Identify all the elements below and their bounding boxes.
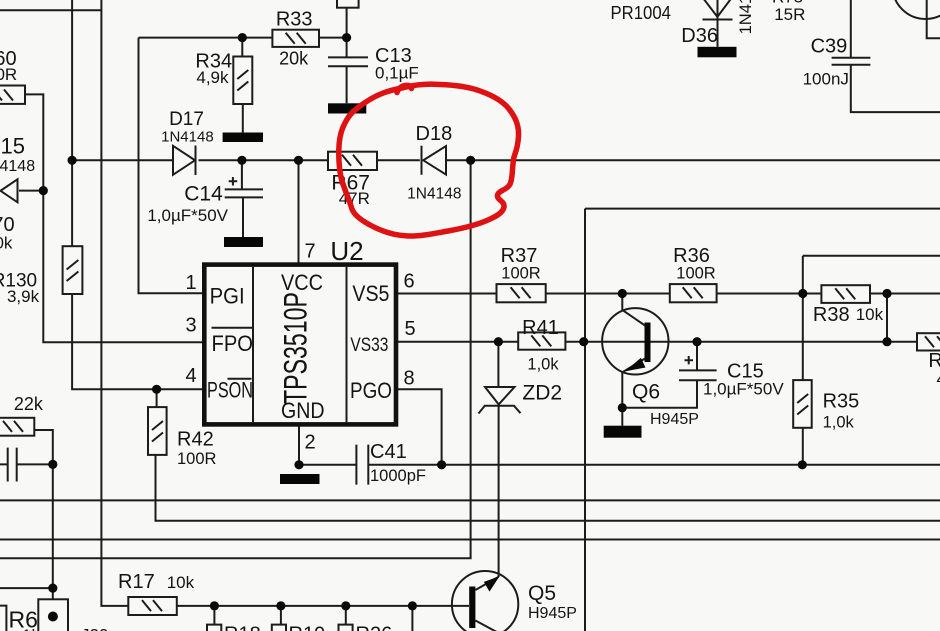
svg-text:C14: C14 — [184, 183, 223, 206]
svg-text:4: 4 — [937, 370, 940, 389]
svg-text:0,1µF: 0,1µF — [375, 64, 419, 83]
svg-text:10k: 10k — [0, 234, 13, 253]
node dot ZD2 top — [494, 337, 503, 346]
node dot 22k cap — [48, 460, 57, 469]
ground bar Q6 — [604, 426, 642, 438]
node dot R41 right — [579, 337, 588, 346]
resistor stub box b2 — [272, 625, 286, 631]
resistor 22k partial — [0, 418, 34, 436]
node dot base row right — [882, 337, 891, 346]
capacitor bottom-left partial — [8, 448, 17, 482]
svg-text:1N4148: 1N4148 — [161, 128, 214, 145]
node dot Q6 collector — [618, 289, 627, 298]
capacitor C15 polarized — [679, 356, 717, 380]
wire vertical net x72 — [72, 0, 204, 389]
svg-text:1,0µF*50V: 1,0µF*50V — [703, 380, 784, 399]
svg-text:8: 8 — [403, 368, 414, 390]
svg-text:100R: 100R — [501, 265, 541, 283]
node dot R17 row a — [210, 601, 219, 610]
svg-text:R17: R17 — [118, 571, 155, 593]
svg-text:3: 3 — [185, 315, 196, 337]
transistor partial top-right — [893, 0, 940, 19]
svg-text:10k: 10k — [856, 305, 884, 324]
svg-text:VS5: VS5 — [352, 281, 389, 306]
svg-text:D18: D18 — [416, 123, 453, 145]
svg-text:PR1004: PR1004 — [611, 3, 672, 23]
svg-text:R19: R19 — [289, 624, 326, 631]
svg-text:D17: D17 — [169, 109, 204, 130]
svg-text:100R: 100R — [177, 450, 217, 468]
connector box bottom-left — [38, 599, 68, 631]
resistor R35 — [793, 380, 812, 428]
wire R34 riser — [241, 38, 244, 133]
svg-text:1: 1 — [185, 272, 196, 294]
capacitor C13 — [328, 57, 368, 66]
svg-text:D36: D36 — [681, 25, 718, 47]
svg-text:H945P: H945P — [650, 411, 699, 428]
node dot VCC riser — [294, 156, 303, 165]
resistor partial right edge — [917, 333, 940, 350]
wire Q6 emitter down and C15 link — [622, 342, 697, 426]
node dot Q5 base — [408, 601, 417, 610]
IC U2 internal dividers — [253, 267, 347, 422]
node dot R42 top — [152, 385, 161, 394]
wire R42 top stub — [156, 389, 158, 407]
node dot D18 output — [466, 156, 475, 165]
node dot connector pin — [48, 612, 58, 622]
svg-text:4,9k: 4,9k — [196, 68, 229, 87]
svg-text:VCC: VCC — [281, 270, 323, 295]
diode D18 — [422, 146, 447, 175]
overline FPO — [212, 327, 254, 329]
svg-text:10k: 10k — [167, 573, 195, 592]
connector box partial left edge — [0, 606, 6, 631]
wire top-right transistor stub — [927, 0, 940, 38]
svg-text:100R: 100R — [676, 265, 716, 283]
svg-text:5: 5 — [404, 318, 415, 340]
svg-text:Q5: Q5 — [528, 582, 556, 605]
wire row y539 — [0, 539, 940, 541]
wire pin5 base row y341 — [396, 341, 917, 343]
resistor R67 — [328, 152, 377, 170]
resistor R37 — [497, 284, 546, 302]
wire top-left horizontal y10 — [0, 9, 101, 11]
wire row y588 stub — [0, 587, 53, 589]
svg-text:VS33: VS33 — [350, 335, 388, 356]
svg-text:R38: R38 — [813, 304, 850, 326]
svg-text:R75: R75 — [772, 0, 803, 7]
svg-text:R18: R18 — [224, 624, 261, 631]
svg-text:FPO: FPO — [212, 331, 254, 356]
svg-text:7: 7 — [304, 241, 315, 263]
diode D36 — [703, 0, 733, 20]
wire row y500 — [0, 499, 940, 501]
wire D18 riser x470 down to row558 — [0, 160, 471, 558]
resistor R130 — [63, 246, 83, 294]
svg-text:R70: R70 — [0, 214, 15, 236]
node dot C13 top — [342, 33, 351, 42]
node dot C14 top — [237, 156, 246, 165]
node dot C41 right — [437, 460, 446, 469]
svg-text:6: 6 — [403, 271, 414, 293]
svg-text:C39: C39 — [811, 35, 848, 57]
svg-text:4: 4 — [185, 365, 196, 387]
wire x585 net — [585, 209, 940, 631]
wire R33 row y37 — [139, 37, 347, 39]
svg-text:2: 2 — [304, 431, 315, 453]
wire C41 row y464 — [299, 464, 940, 466]
node dot R38 left — [798, 289, 807, 298]
resistor R34 — [233, 57, 252, 105]
wire main row y160 — [72, 159, 940, 161]
resistor R36 — [670, 284, 717, 302]
overline PSON — [228, 378, 252, 380]
wire R17 row y606 — [177, 605, 469, 607]
resistor stub box b1 — [207, 625, 221, 631]
svg-text:R42: R42 — [177, 429, 214, 451]
svg-text:1,0k: 1,0k — [527, 356, 559, 374]
wire D36 riser — [717, 0, 719, 47]
diode D15 partial left edge — [1, 179, 18, 202]
resistor stub box b3 — [339, 625, 353, 631]
IC U2 body — [204, 265, 396, 425]
capacitor C39 — [832, 58, 871, 65]
wire GND pin2 riser — [298, 424, 300, 464]
resistor R33 — [272, 30, 319, 47]
node dot row588 — [48, 584, 57, 593]
svg-text:3,9k: 3,9k — [7, 287, 40, 306]
wire VCC riser x298 — [298, 160, 300, 264]
wire C39 risers — [851, 0, 940, 112]
zener ZD2 — [479, 387, 521, 414]
wire 22k corner to connector — [34, 430, 53, 617]
svg-text:1,0µF*50V: 1,0µF*50V — [147, 206, 228, 225]
svg-text:J20: J20 — [81, 626, 108, 631]
wire left cap stubs — [0, 463, 53, 465]
node dot Q6 emitter — [618, 403, 627, 412]
node dot C15 top — [692, 337, 701, 346]
svg-text:TPS3510P: TPS3510P — [278, 292, 314, 404]
wire C13 riser — [346, 8, 348, 104]
svg-text:R35: R35 — [823, 390, 860, 412]
wire from R160 to x43 riser — [25, 94, 204, 342]
svg-text:PSON: PSON — [207, 377, 253, 402]
wire R38 right riser — [886, 294, 888, 342]
svg-text:100nJ: 100nJ — [803, 70, 849, 89]
component box top edge — [337, 0, 359, 8]
capacitor C14 polarized — [225, 177, 263, 197]
ground bar C14 — [224, 237, 263, 247]
node dot R17 row c — [341, 601, 350, 610]
ground bar C13 — [328, 103, 366, 113]
resistor R41 — [518, 332, 565, 349]
ground bar R34 — [223, 133, 263, 143]
svg-text:1N4148: 1N4148 — [737, 0, 755, 34]
ground bar D36 — [698, 47, 737, 58]
wire R42 bottom to row520 — [156, 455, 940, 521]
svg-text:1,0k: 1,0k — [823, 414, 855, 432]
svg-text:20k: 20k — [279, 49, 309, 69]
svg-text:PGI: PGI — [210, 284, 245, 309]
wire PGI riser x138 — [139, 38, 205, 294]
wire stubs below R17 row — [214, 606, 412, 631]
resistor R17 — [128, 597, 177, 615]
svg-text:R33: R33 — [276, 9, 313, 31]
wire R35 net x802 — [803, 256, 940, 465]
svg-text:D15: D15 — [0, 134, 25, 159]
red annotation circle around D18 — [339, 84, 519, 236]
svg-text:22k: 22k — [14, 394, 44, 414]
svg-text:U2: U2 — [330, 236, 363, 266]
transistor Q5 — [452, 571, 518, 631]
svg-text:H945P: H945P — [528, 605, 577, 622]
resistor R42 — [148, 407, 167, 455]
node dot R35 bottom — [798, 460, 807, 469]
wire pin8 corner to C41 row — [396, 389, 442, 465]
diode D17 — [173, 146, 196, 176]
svg-text:1000pF: 1000pF — [370, 467, 426, 485]
transistor Q6 — [602, 308, 668, 374]
svg-text:4148: 4148 — [0, 158, 35, 175]
svg-text:R41: R41 — [522, 317, 559, 339]
svg-text:R4: R4 — [928, 350, 940, 372]
capacitor C41 — [356, 445, 368, 485]
wire diode D15 to x43 — [19, 190, 43, 192]
resistor R160 partial top-left — [0, 86, 25, 104]
ground bar U2 GND — [280, 474, 320, 484]
svg-text:1k: 1k — [22, 626, 40, 631]
node dot R17 row b — [276, 601, 285, 610]
node dot GND pin2 — [294, 460, 303, 469]
svg-text:1N4148: 1N4148 — [407, 185, 461, 202]
wire C14 riser — [242, 160, 243, 237]
svg-text:15R: 15R — [774, 5, 805, 24]
svg-text:Q6: Q6 — [632, 380, 660, 403]
node dot R34 top — [238, 33, 247, 42]
resistor R38 — [821, 285, 870, 303]
wire vertical net x101 to R17 — [101, 0, 128, 606]
svg-text:0R: 0R — [0, 65, 17, 84]
node dot x72 main row — [68, 156, 77, 165]
wire Q6 collector riser — [621, 294, 623, 311]
svg-text:R26: R26 — [356, 624, 393, 631]
wire ZD2 riser to Q5 emitter — [497, 342, 499, 577]
node dot R38 right — [882, 289, 891, 298]
wire pin6 row y293 — [396, 293, 940, 295]
node dot D15 — [39, 186, 48, 195]
svg-text:ZD2: ZD2 — [522, 382, 562, 405]
svg-text:C41: C41 — [370, 441, 407, 463]
svg-text:PGO: PGO — [350, 378, 392, 403]
